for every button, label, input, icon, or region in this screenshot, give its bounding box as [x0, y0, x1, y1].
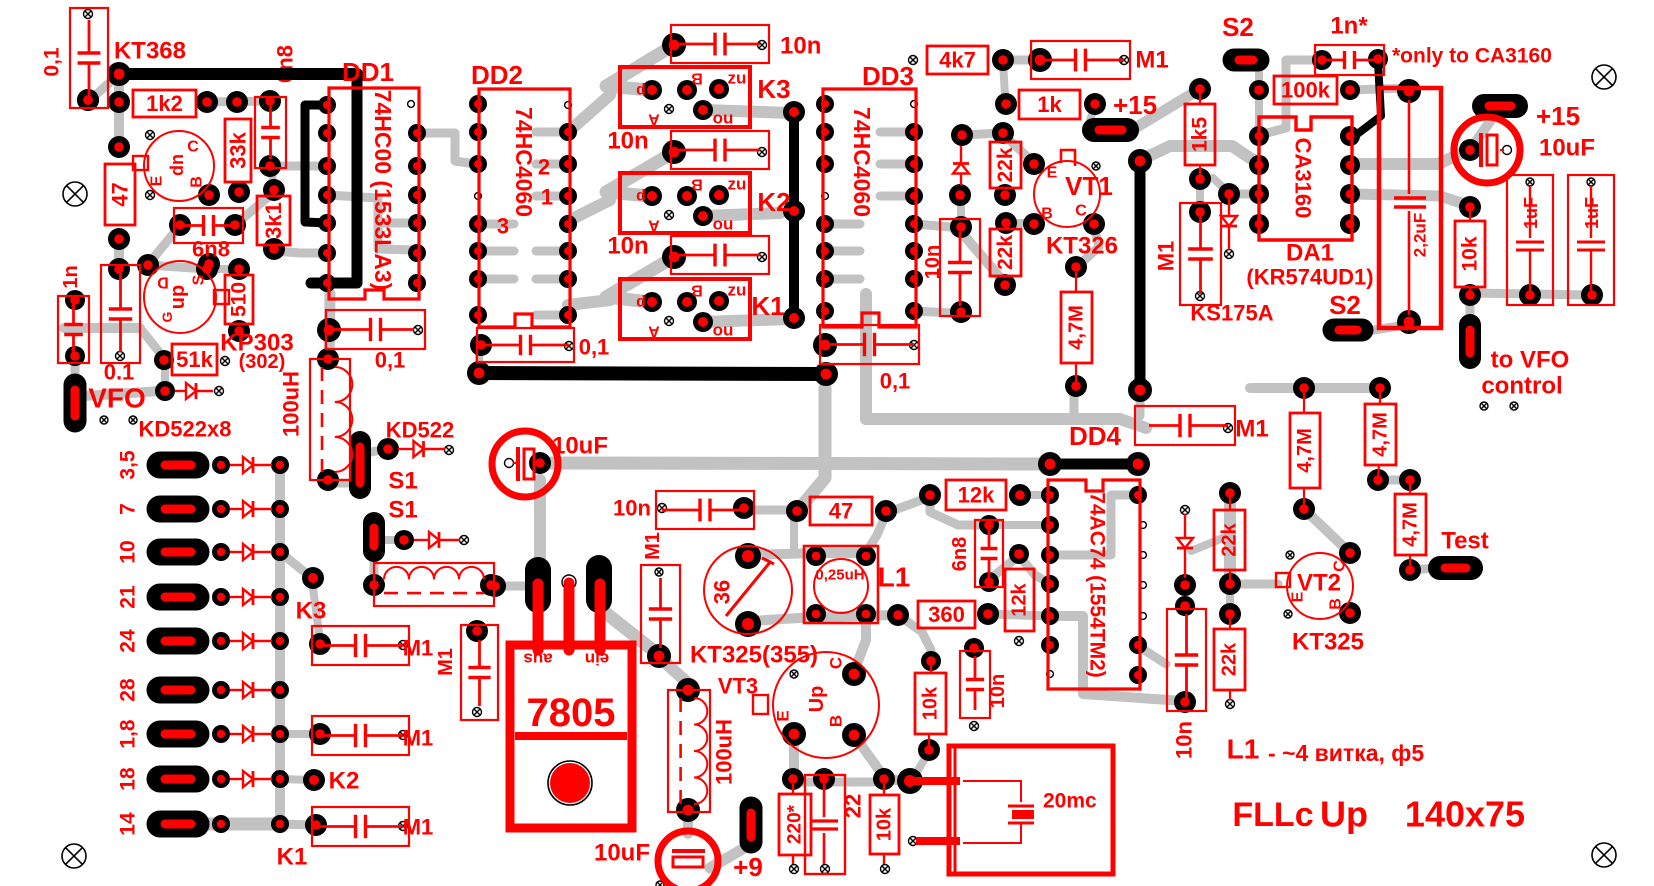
- svg-text:M1: M1: [403, 636, 434, 661]
- svg-text:100k: 100k: [1281, 78, 1331, 103]
- svg-text:S: S: [191, 274, 208, 285]
- svg-text:B: B: [691, 70, 703, 87]
- svg-text:K2: K2: [329, 768, 360, 795]
- svg-text:4,7M: 4,7M: [1294, 428, 1316, 472]
- svg-text:M1: M1: [1135, 47, 1168, 74]
- svg-text:10n: 10n: [607, 128, 648, 155]
- svg-text:20mc: 20mc: [1043, 790, 1097, 813]
- svg-text:0,1: 0,1: [41, 47, 64, 77]
- svg-text:24: 24: [117, 629, 140, 653]
- svg-text:100uH: 100uH: [279, 371, 304, 437]
- svg-text:1: 1: [541, 185, 553, 210]
- svg-text:C: C: [827, 657, 846, 669]
- svg-text:M1: M1: [435, 648, 457, 676]
- svg-text:0,1: 0,1: [579, 335, 610, 360]
- svg-text:10n: 10n: [1172, 721, 1197, 759]
- svg-text:140x75: 140x75: [1405, 794, 1525, 835]
- svg-text:10n: 10n: [780, 33, 821, 60]
- svg-text:*only to CA3160: *only to CA3160: [1392, 45, 1552, 68]
- svg-text:FLLc: FLLc: [1232, 796, 1313, 834]
- svg-text:3: 3: [497, 214, 509, 239]
- svg-text:dn: dn: [167, 154, 187, 176]
- svg-text:K1: K1: [751, 291, 784, 321]
- svg-text:28: 28: [117, 678, 140, 702]
- svg-text:3,5: 3,5: [117, 450, 140, 480]
- svg-text:47: 47: [829, 499, 853, 524]
- svg-text:d: d: [636, 294, 646, 311]
- svg-text:ou: ou: [713, 109, 734, 128]
- svg-text:G: G: [159, 311, 175, 322]
- svg-text:DD1: DD1: [342, 57, 394, 87]
- svg-text:2,2uF: 2,2uF: [1411, 213, 1430, 257]
- svg-text:KT326: KT326: [1046, 233, 1118, 260]
- svg-text:A: A: [648, 111, 660, 128]
- svg-text:+15: +15: [1113, 90, 1157, 120]
- svg-text:S1: S1: [388, 468, 417, 495]
- svg-text:+9: +9: [733, 852, 763, 882]
- svg-text:ou: ou: [713, 215, 734, 234]
- svg-text:3k1: 3k1: [261, 202, 286, 239]
- svg-text:74AC74 (1554TM2): 74AC74 (1554TM2): [1086, 492, 1109, 678]
- svg-text:10k: 10k: [874, 807, 896, 841]
- svg-text:E: E: [1290, 591, 1307, 602]
- svg-text:10n: 10n: [987, 674, 1009, 708]
- svg-text:7: 7: [117, 503, 140, 515]
- svg-text:VT1: VT1: [1065, 171, 1113, 201]
- svg-text:6n8: 6n8: [949, 537, 971, 571]
- svg-text:Up: Up: [806, 686, 828, 713]
- svg-text:M1: M1: [1235, 416, 1268, 443]
- svg-text:10uF: 10uF: [594, 840, 650, 867]
- svg-text:E: E: [1047, 165, 1058, 182]
- svg-text:0,1: 0,1: [375, 348, 406, 373]
- svg-text:2: 2: [538, 155, 550, 180]
- svg-text:1uF: 1uF: [1521, 197, 1541, 229]
- svg-text:zu: zu: [728, 281, 747, 300]
- svg-text:36: 36: [710, 580, 735, 604]
- svg-text:1k2: 1k2: [146, 91, 183, 116]
- svg-text:DD4: DD4: [1069, 421, 1122, 451]
- svg-text:1n*: 1n*: [1330, 13, 1368, 40]
- svg-text:up: up: [167, 285, 189, 309]
- svg-text:C: C: [187, 139, 199, 156]
- svg-text:C: C: [1332, 560, 1349, 572]
- svg-text:7805: 7805: [527, 691, 616, 735]
- svg-text:KT325(355): KT325(355): [690, 642, 818, 669]
- svg-text:M1: M1: [642, 532, 664, 560]
- svg-text:E: E: [774, 710, 793, 721]
- svg-text:Up: Up: [1320, 794, 1368, 835]
- svg-text:33k: 33k: [226, 131, 251, 168]
- svg-text:E: E: [149, 175, 166, 186]
- svg-text:KT325: KT325: [1292, 629, 1364, 656]
- svg-text:KS175A: KS175A: [1190, 301, 1273, 326]
- svg-text:100uH: 100uH: [712, 719, 737, 785]
- svg-text:10n: 10n: [607, 233, 648, 260]
- svg-text:B: B: [189, 176, 206, 188]
- svg-text:18: 18: [117, 767, 140, 791]
- svg-text:K1: K1: [277, 844, 308, 871]
- svg-text:M1: M1: [403, 726, 434, 751]
- svg-text:S2: S2: [1222, 12, 1254, 42]
- svg-text:510: 510: [228, 282, 251, 317]
- svg-text:VT3: VT3: [718, 674, 758, 699]
- svg-text:22k: 22k: [1219, 522, 1241, 556]
- svg-text:DA1: DA1: [1286, 240, 1334, 267]
- svg-text:M1: M1: [1154, 241, 1179, 272]
- svg-text:74HC4060: 74HC4060: [849, 107, 875, 217]
- svg-text:4k7: 4k7: [939, 48, 976, 73]
- svg-text:- ~4 витка, ф5: - ~4 витка, ф5: [1268, 740, 1424, 766]
- svg-text:74HC00 (1533LA3): 74HC00 (1533LA3): [370, 90, 396, 291]
- svg-text:4,7M: 4,7M: [1370, 412, 1392, 456]
- svg-text:DD3: DD3: [862, 61, 914, 91]
- svg-text:K2: K2: [757, 187, 790, 217]
- svg-text:74HC4060: 74HC4060: [511, 107, 537, 217]
- svg-text:4,7M: 4,7M: [1400, 502, 1422, 546]
- svg-text:0.1: 0.1: [104, 360, 135, 385]
- svg-text:M1: M1: [403, 815, 434, 840]
- svg-text:D: D: [157, 274, 169, 291]
- svg-text:14: 14: [117, 812, 140, 836]
- svg-text:1k: 1k: [1037, 92, 1062, 117]
- svg-text:10uF: 10uF: [1539, 135, 1595, 162]
- svg-text:to VFO: to VFO: [1491, 347, 1570, 374]
- svg-text:B: B: [827, 715, 846, 727]
- svg-text:12k: 12k: [1009, 582, 1031, 616]
- svg-text:10n: 10n: [922, 245, 944, 279]
- svg-text:22k: 22k: [1219, 642, 1241, 676]
- svg-text:B: B: [691, 176, 703, 193]
- svg-text:S1: S1: [388, 497, 417, 524]
- svg-text:1n: 1n: [60, 265, 82, 288]
- svg-text:(302): (302): [239, 351, 286, 373]
- svg-text:1uF: 1uF: [1582, 197, 1602, 229]
- svg-text:1k5: 1k5: [1189, 117, 1212, 152]
- svg-text:21: 21: [117, 585, 140, 609]
- svg-text:KD522: KD522: [386, 418, 454, 443]
- svg-text:control: control: [1481, 373, 1562, 400]
- svg-text:L1: L1: [878, 562, 911, 593]
- svg-text:VFO: VFO: [88, 383, 146, 414]
- svg-text:K3: K3: [296, 598, 327, 625]
- svg-text:aus: aus: [523, 650, 552, 669]
- svg-text:B: B: [1328, 598, 1345, 610]
- svg-text:12k: 12k: [958, 483, 995, 508]
- svg-text:DD2: DD2: [471, 60, 523, 90]
- svg-text:22k: 22k: [994, 235, 1017, 270]
- svg-text:S2: S2: [1329, 290, 1361, 320]
- svg-text:ou: ou: [713, 321, 734, 340]
- svg-text:zu: zu: [728, 69, 747, 88]
- svg-text:K3: K3: [757, 74, 790, 104]
- svg-text:L1: L1: [1227, 734, 1260, 765]
- svg-text:6n8: 6n8: [192, 237, 230, 262]
- svg-text:ein: ein: [585, 650, 610, 669]
- svg-text:KT368: KT368: [114, 38, 186, 65]
- svg-text:10uF: 10uF: [552, 433, 608, 460]
- svg-text:360: 360: [928, 602, 965, 627]
- svg-text:KD522x8: KD522x8: [139, 417, 232, 442]
- svg-text:10k: 10k: [1459, 236, 1482, 271]
- svg-text:51k: 51k: [176, 347, 213, 372]
- svg-text:C: C: [1075, 203, 1087, 220]
- svg-text:22k: 22k: [994, 147, 1017, 182]
- svg-text:10n: 10n: [613, 496, 651, 521]
- svg-text:Test: Test: [1441, 528, 1489, 555]
- svg-text:d: d: [636, 82, 646, 99]
- svg-text:(KR574UD1): (KR574UD1): [1246, 265, 1373, 290]
- svg-text:A: A: [648, 323, 660, 340]
- svg-text:47: 47: [108, 182, 133, 206]
- svg-text:0,1: 0,1: [880, 369, 911, 394]
- svg-text:CA3160: CA3160: [1291, 138, 1316, 219]
- svg-text:220*: 220*: [785, 804, 806, 844]
- svg-text:d: d: [636, 188, 646, 205]
- svg-text:zu: zu: [728, 175, 747, 194]
- svg-text:0,25uH: 0,25uH: [815, 567, 864, 584]
- svg-text:1,8: 1,8: [117, 719, 140, 749]
- svg-text:+15: +15: [1536, 101, 1580, 131]
- svg-text:4,7M: 4,7M: [1066, 305, 1088, 349]
- svg-text:B: B: [691, 282, 703, 299]
- svg-text:A: A: [648, 217, 660, 234]
- svg-text:10k: 10k: [920, 686, 942, 720]
- svg-text:10: 10: [117, 540, 140, 563]
- svg-text:B: B: [1041, 206, 1053, 223]
